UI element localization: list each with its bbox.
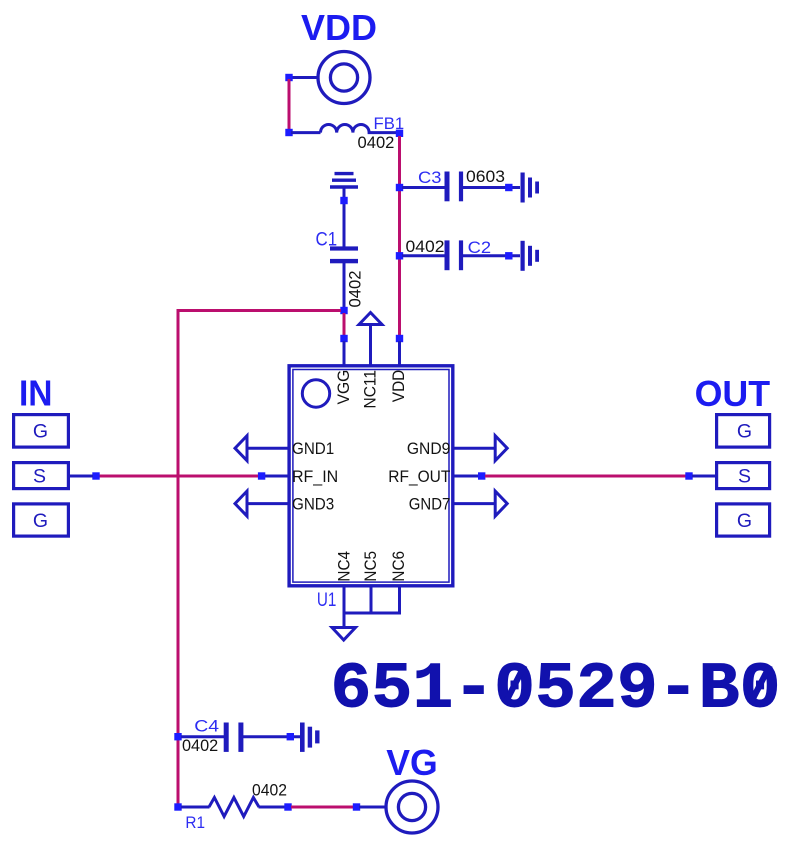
wire NC11 stem — [369, 326, 372, 365]
ground right of C3 — [521, 173, 540, 203]
OUT pad G (top) — [717, 415, 770, 448]
node junction before C2 ground — [505, 252, 512, 259]
IC U1 inner border — [293, 370, 449, 583]
node junction RF_OUT — [478, 472, 485, 479]
svg-text:C1: C1 — [316, 229, 338, 250]
power port VDD connector P1 — [318, 52, 370, 104]
svg-text:G: G — [737, 421, 752, 443]
wire VDD port lead — [290, 76, 318, 79]
svg-text:NC5: NC5 — [361, 551, 380, 582]
wire NC stem down — [343, 613, 346, 627]
wire GND1 pin — [247, 447, 289, 450]
node junction VGG pin — [340, 335, 347, 342]
svg-text:S: S — [738, 466, 751, 488]
svg-text:VDD: VDD — [301, 7, 377, 48]
capacitor C2 — [445, 240, 464, 270]
node junction C1 to net — [340, 307, 347, 314]
ground right of C4 — [300, 723, 320, 752]
node junction before C4 ground — [287, 733, 294, 740]
wire horizontal to left vertical net — [177, 309, 342, 312]
svg-text:R1: R1 — [185, 813, 205, 832]
svg-text:GND9: GND9 — [407, 439, 450, 458]
no-connect arrow GND7 — [495, 491, 507, 516]
no-connect arrow GND1 — [235, 436, 247, 461]
svg-text:GND3: GND3 — [292, 495, 334, 514]
svg-text:VGG: VGG — [334, 370, 353, 405]
svg-text:C3: C3 — [418, 168, 442, 187]
OUT pad S — [717, 463, 770, 489]
wire NC5 stub — [370, 586, 373, 615]
wire R1 to junction — [259, 806, 286, 809]
wire C3 to ground — [463, 186, 520, 189]
svg-text:0402: 0402 — [252, 780, 287, 799]
node junction at C3 — [396, 184, 403, 191]
node junction at OUT S pad — [685, 472, 692, 479]
wire C2 to ground — [463, 254, 520, 257]
wire RF_IN stub — [261, 475, 289, 478]
capacitor C4 — [224, 723, 244, 752]
wire NC4 stub — [343, 586, 346, 615]
wire VG port lead — [359, 806, 386, 809]
node junction at C2 — [396, 252, 403, 259]
wire net RF_OUT — [485, 475, 689, 478]
svg-text:NC6: NC6 — [389, 551, 408, 582]
wire C1 bottom lead — [343, 263, 346, 308]
wire long vertical net on left — [177, 309, 180, 807]
svg-text:RF_IN: RF_IN — [292, 467, 338, 486]
ground right of C2 — [521, 241, 540, 271]
slash of zero 1 — [505, 666, 525, 704]
ground (earth) above C1 — [330, 174, 358, 187]
node junction at IN S pad — [92, 472, 99, 479]
wire OUT S pad lead — [692, 475, 716, 478]
wire IN S pad lead — [70, 475, 93, 478]
svg-text:C2: C2 — [468, 238, 492, 257]
node junction at VDD port — [285, 74, 292, 81]
wire VDD pin stub — [398, 341, 401, 365]
wire ground to C1 — [343, 189, 346, 247]
svg-text:C4: C4 — [194, 717, 219, 736]
node junction VDD pin — [396, 335, 403, 342]
wire GND7 pin — [453, 502, 495, 505]
OUT pad G (bottom) — [717, 504, 770, 536]
svg-text:0402: 0402 — [406, 237, 445, 256]
svg-text:GND1: GND1 — [292, 439, 334, 458]
wire to C3 — [402, 186, 445, 189]
wire C1 to VGG pin — [343, 313, 346, 336]
no-connect arrow below U1 — [332, 628, 356, 641]
node junction before C3 ground — [505, 184, 512, 191]
wire NC bus — [343, 612, 402, 615]
node junction right of FB1 — [396, 130, 403, 137]
node junction at VG port — [353, 803, 360, 810]
wire to R1 — [181, 806, 210, 809]
wire net VDD vertical bus — [398, 136, 401, 336]
wire net VG — [291, 806, 354, 809]
wire to C4 — [181, 735, 224, 738]
no-connect arrow GND3 — [235, 491, 247, 516]
op IC U1 body — [289, 366, 453, 586]
slash of zero 2 — [750, 666, 770, 704]
svg-text:OUT: OUT — [695, 373, 771, 414]
node junction on C1 top lead — [340, 197, 347, 204]
svg-text:G: G — [33, 421, 48, 443]
node junction RF_IN — [258, 472, 265, 479]
wire VGG pin stub — [343, 341, 346, 365]
svg-text:0603: 0603 — [466, 167, 505, 186]
wire C4 to ground — [243, 735, 300, 738]
resistor R1 — [209, 798, 259, 817]
node junction at C4 — [174, 733, 181, 740]
svg-text:VDD: VDD — [389, 370, 408, 403]
svg-text:G: G — [737, 510, 752, 532]
IN pad G (top) — [14, 415, 69, 448]
svg-text:NC11: NC11 — [361, 370, 380, 409]
svg-text:G: G — [33, 510, 48, 532]
capacitor C1 — [330, 246, 358, 263]
svg-text:0402: 0402 — [345, 271, 364, 308]
wire to FB1 — [291, 131, 321, 134]
IN pad S — [14, 463, 69, 489]
IN pad G (bottom) — [14, 504, 69, 536]
wire to C2 — [402, 254, 445, 257]
svg-text:U1: U1 — [317, 590, 337, 611]
wire NC6 stub — [398, 586, 401, 615]
svg-text:NC4: NC4 — [334, 551, 353, 582]
power port VG connector P2 — [386, 781, 438, 833]
svg-text:651-0529-B0: 651-0529-B0 — [331, 654, 781, 727]
wire net VDD down — [288, 79, 291, 131]
node junction left of FB1 — [285, 129, 292, 136]
wire net RF_IN — [99, 475, 258, 478]
node junction right of R1 — [284, 803, 291, 810]
wire GND9 pin — [453, 447, 495, 450]
svg-text:RF_OUT: RF_OUT — [388, 467, 450, 486]
no-connect arrow GND9 — [495, 436, 507, 461]
ferrite bead FB1 — [321, 124, 398, 132]
svg-text:IN: IN — [19, 373, 53, 414]
node junction at R1 — [174, 803, 181, 810]
svg-text:GND7: GND7 — [409, 495, 451, 514]
svg-text:0402: 0402 — [358, 133, 395, 152]
capacitor C3 — [445, 172, 464, 202]
no-connect arrow above NC11 — [359, 313, 382, 325]
wire GND3 pin — [247, 502, 289, 505]
svg-text:S: S — [33, 466, 46, 488]
wire RF_OUT stub — [453, 475, 482, 478]
IC U1 pin-1 circle — [302, 380, 329, 407]
svg-text:VG: VG — [386, 742, 438, 783]
svg-text:0402: 0402 — [182, 736, 218, 755]
